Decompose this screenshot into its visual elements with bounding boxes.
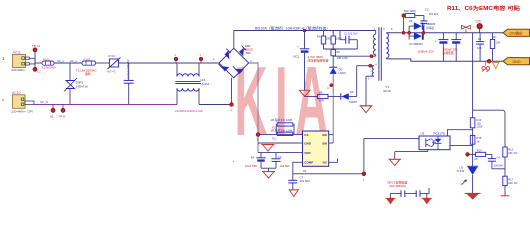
- svg-text:GND: GND: [304, 141, 312, 145]
- wire LF1 to bridge bottom: [199, 78, 233, 112]
- watermark KIA: [235, 48, 336, 157]
- svg-text:UU9.8: UU9.8: [201, 82, 210, 86]
- svg-text:D6: D6: [339, 67, 343, 71]
- svg-text:NT01: NT01: [108, 54, 116, 58]
- capacitor C1: [340, 31, 358, 50]
- capacitor E4: [233, 153, 266, 169]
- resistor R5: [317, 31, 332, 50]
- shunt regulator U2 TL431: [457, 165, 479, 193]
- resistor R7: [490, 33, 500, 61]
- capacitor E3: [442, 33, 461, 61]
- diode D3: [409, 19, 436, 40]
- wire GND pin: [258, 142, 299, 144]
- svg-text:R7: R7: [493, 35, 497, 39]
- snubber bottom rail: [324, 48, 358, 50]
- ground (CY right): [422, 193, 432, 204]
- resistor R2: [402, 9, 424, 35]
- Y-capacitor note text: [387, 179, 407, 188]
- svg-text:PC817B: PC817B: [434, 131, 445, 135]
- svg-text:E4: E4: [251, 156, 255, 160]
- svg-text:保险: 保险: [85, 71, 91, 76]
- svg-text:×: ×: [2, 98, 5, 103]
- note text EMC (red, top right): [447, 5, 520, 12]
- svg-text:HD-41: HD-41: [107, 69, 116, 73]
- svg-text:COMP: COMP: [304, 161, 313, 165]
- varistor ZNR1: [64, 63, 88, 105]
- capacitor CY1: [390, 190, 404, 197]
- svg-text:SW: SW: [322, 133, 327, 137]
- test point N1: [50, 105, 55, 119]
- svg-text:ABS: ABS: [246, 51, 251, 55]
- resistor R11: [271, 117, 293, 130]
- ground (divider): [501, 195, 510, 197]
- svg-text:D3: D3: [409, 19, 413, 23]
- test point TP-N: [59, 105, 66, 119]
- svg-text:12V输出: 12V输出: [509, 31, 523, 36]
- wire AC_N (purple): [34, 100, 177, 104]
- svg-text:N1: N1: [50, 115, 54, 119]
- svg-text:1000uF 25V: 1000uF 25V: [418, 49, 434, 53]
- op IC U1 (PWM controller): [299, 131, 338, 173]
- svg-text:222 400VAC: 222 400VAC: [390, 184, 408, 188]
- svg-text:1R 贴片1% 1206: 1R 贴片1% 1206: [271, 127, 293, 132]
- node label 1 (left edge): [2, 56, 5, 61]
- svg-text:R6: R6: [337, 50, 341, 54]
- diode D1: [408, 26, 426, 46]
- capacitor C2: [420, 8, 438, 33]
- svg-text:331 50V: 331 50V: [300, 179, 311, 183]
- svg-text:R12: R12: [272, 136, 277, 140]
- capacitor CY2: [405, 188, 429, 197]
- svg-text:U1: U1: [303, 169, 307, 173]
- resistor R10: [470, 33, 483, 167]
- svg-text:AC_L: AC_L: [57, 59, 65, 63]
- svg-text:肖特基: 肖特基: [426, 26, 434, 30]
- svg-text:TP-N: TP-N: [59, 115, 66, 119]
- svg-text:GND: GND: [513, 60, 521, 64]
- svg-text:102 1kV: 102 1kV: [429, 12, 439, 16]
- capacitor C6: [476, 33, 484, 61]
- resistor R17: [503, 176, 518, 196]
- svg-text:C2: C2: [425, 8, 429, 12]
- earth symbol (red): [482, 61, 490, 72]
- secondary +12V wire: [386, 32, 503, 34]
- wire fuse F101 to fuse F102, net AC_L: [54, 59, 82, 63]
- svg-text:D1 SB5200: D1 SB5200: [409, 42, 423, 46]
- ground (orange): [492, 63, 499, 69]
- svg-text:R5: R5: [317, 35, 321, 39]
- wire bridge top riser: [233, 31, 235, 49]
- svg-text:1K: 1K: [477, 140, 480, 144]
- svg-text:VDD: VDD: [304, 151, 311, 155]
- thermistor NT01: [107, 54, 121, 73]
- wire F102 to NTC: [96, 62, 110, 64]
- svg-text:D2: D2: [350, 90, 354, 94]
- svg-text:EF16: EF16: [384, 89, 392, 93]
- svg-text:10uF 50V: 10uF 50V: [245, 164, 257, 168]
- optocoupler U3: [419, 131, 450, 149]
- fuse F102: [76, 58, 97, 76]
- svg-text:1206: 1206: [477, 125, 483, 129]
- ground (CY left): [385, 193, 395, 204]
- secondary GND rail: [386, 59, 503, 63]
- TL431 ref arrow: [462, 179, 467, 184]
- resistor R15: [470, 135, 482, 144]
- top DC+ rail: [234, 30, 376, 32]
- connector AC11: [12, 51, 30, 73]
- wire E4/C3 bottom + ground: [261, 168, 276, 178]
- svg-text:2K: 2K: [475, 157, 478, 161]
- svg-text:R11、C6为EMC电容 可贴: R11、C6为EMC电容 可贴: [447, 5, 520, 12]
- svg-text:220-440V≈（2P）: 220-440V≈（2P）: [12, 110, 35, 114]
- svg-text:R16: R16: [508, 148, 513, 152]
- transformer T1 primary winding: [374, 28, 376, 57]
- wire branch to feedback divider: [473, 110, 505, 147]
- svg-text:BD10A（整流桥）10A+DIP-4（整流桥封装）: BD10A（整流桥）10A+DIP-4（整流桥封装）: [255, 25, 330, 30]
- wire opto cathode to ground: [395, 150, 428, 160]
- svg-text:12V: 12V: [475, 20, 482, 24]
- capacitor CX1 (X2): [124, 59, 134, 104]
- wire COMP to optocoupler: [364, 137, 419, 139]
- ground (C7): [289, 190, 299, 197]
- svg-text:C6: C6: [478, 37, 482, 41]
- test point L1: [33, 67, 41, 73]
- svg-text:24K 1%: 24K 1%: [508, 181, 518, 185]
- test point 12V: [475, 20, 482, 33]
- svg-text:104: 104: [477, 46, 482, 50]
- svg-text:SW: SW: [322, 141, 327, 145]
- test point TP-L1: [32, 44, 41, 52]
- ground (EC1): [299, 90, 310, 96]
- wire CS net: [256, 124, 298, 142]
- svg-text:C3: C3: [278, 155, 282, 159]
- svg-text:+: +: [297, 45, 299, 49]
- svg-text:L1: L1: [38, 70, 42, 74]
- capacitor C4: [486, 154, 505, 168]
- svg-text:CS: CS: [304, 133, 308, 137]
- svg-text:C4: C4: [497, 156, 501, 160]
- wire SW vertical (D6 to IC SW pins): [327, 74, 333, 143]
- svg-text:R14: R14: [477, 149, 482, 153]
- diode D6: [329, 67, 346, 75]
- resistor R6: [331, 50, 348, 61]
- resistor R16: [503, 147, 518, 176]
- capacitor C3: [272, 153, 291, 169]
- wire AC11 pins to L node: [30, 50, 36, 70]
- svg-text:SB5200: SB5200: [426, 22, 436, 26]
- ground (IC GND): [262, 145, 275, 152]
- svg-text:20R 1206: 20R 1206: [404, 9, 417, 13]
- wire opto emitter: [450, 145, 473, 147]
- capacitor E2: [418, 33, 449, 61]
- wire aux pin4 column: [356, 66, 358, 97]
- svg-text:AC_L: AC_L: [70, 59, 78, 63]
- svg-text:EC1: EC1: [294, 55, 300, 59]
- wire COMP net: [293, 138, 366, 181]
- svg-text:3.15A 250V: 3.15A 250V: [42, 66, 57, 70]
- transformer T1 secondary winding: [383, 28, 393, 59]
- svg-text:21104GNA30CA-00L: 21104GNA30CA-00L: [175, 109, 203, 113]
- wire bridge right to DC- vertical: [249, 63, 258, 153]
- resistor R4: [331, 31, 342, 50]
- svg-text:IN4007: IN4007: [349, 100, 358, 104]
- resistor R8: [305, 91, 328, 103]
- svg-text:104 50V: 104 50V: [280, 164, 291, 168]
- wire T1 pin3 to snubber column: [333, 53, 377, 67]
- svg-text:220-440V≈: 220-440V≈: [12, 68, 27, 72]
- svg-text:104 50V: 104 50V: [494, 163, 504, 167]
- svg-text:TP-L1: TP-L1: [32, 44, 41, 48]
- svg-text:高频低阻: 高频低阻: [442, 51, 453, 55]
- svg-text:R15: R15: [477, 136, 482, 140]
- svg-text:24K 1%: 24K 1%: [508, 151, 518, 155]
- svg-text:C1 102 2kV: C1 102 2kV: [344, 32, 358, 36]
- svg-text:US1M: US1M: [339, 71, 346, 75]
- svg-text:10K: 10K: [496, 41, 501, 45]
- wire opto collector: [448, 130, 473, 136]
- resistor R12: [271, 127, 293, 140]
- svg-text:高压铝电解电容: 高压铝电解电容: [308, 58, 329, 63]
- output tag GND: [503, 58, 530, 65]
- ground (aux winding): [360, 106, 373, 113]
- svg-text:0.22uF 275VAC: 0.22uF 275VAC: [126, 59, 130, 79]
- capacitor C7: [288, 174, 310, 190]
- svg-text:TL431: TL431: [457, 169, 465, 173]
- connector AC10: [2, 91, 35, 113]
- fuse F101: [42, 58, 57, 70]
- svg-text:14D471K: 14D471K: [76, 85, 89, 89]
- svg-text:10R: 10R: [319, 99, 324, 103]
- ground (opto LED): [389, 159, 402, 165]
- capacitor EC1 (bulk): [294, 29, 329, 90]
- svg-text:AC11: AC11: [13, 51, 21, 55]
- svg-text:AC_N: AC_N: [40, 100, 48, 104]
- svg-text:U3: U3: [421, 131, 425, 135]
- transformer T1 core: [379, 27, 391, 93]
- net marker (dark red): [462, 25, 471, 32]
- output tag +12V: [503, 29, 530, 36]
- wire NTC to bridge: [119, 62, 220, 64]
- resistor R14: [466, 149, 486, 161]
- svg-text:R8: R8: [319, 91, 323, 95]
- svg-text:1R 贴片1% 1206: 1R 贴片1% 1206: [271, 117, 293, 122]
- transformer T1 aux winding: [357, 63, 378, 105]
- svg-text:R17: R17: [508, 177, 513, 181]
- note text (blue) above rail: [255, 25, 330, 30]
- wire L node to fuse F101: [35, 62, 42, 64]
- diode D2: [328, 90, 358, 104]
- bridge rectifier DB1: [213, 44, 253, 78]
- wire VDD pin: [258, 152, 299, 154]
- choke LF1: [174, 54, 209, 113]
- ground (TL431): [465, 193, 481, 199]
